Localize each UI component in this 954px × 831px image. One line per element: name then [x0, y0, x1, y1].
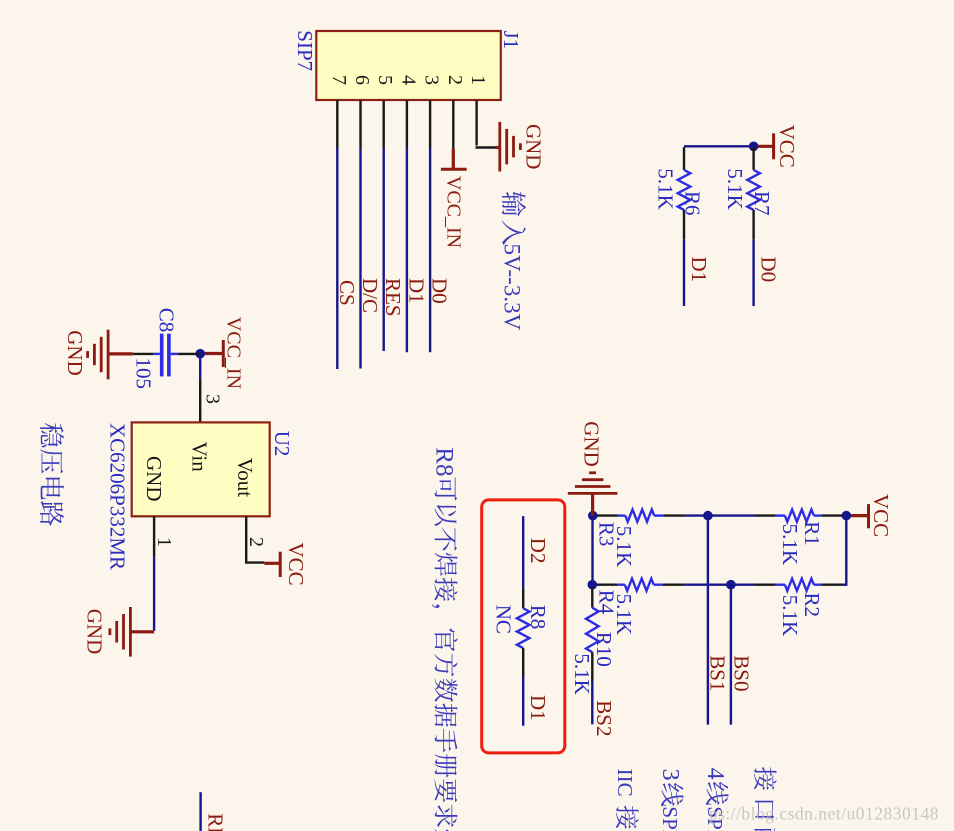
svg-text:GND: GND [522, 124, 546, 170]
capacitor C8 [178, 353, 199, 355]
svg-text:R2: R2 [800, 593, 824, 618]
pin 1 lead [153, 516, 155, 557]
ground GND (C8) [108, 352, 133, 355]
svg-text:GND: GND [83, 609, 107, 655]
pin 7 lead [336, 100, 338, 148]
svg-text:R3: R3 [595, 522, 619, 547]
wire VCC to R6 [684, 145, 754, 147]
svg-text:U2: U2 [270, 431, 294, 457]
note 接口配置 [754, 767, 777, 790]
wire pin 5 [383, 148, 385, 351]
pin 4 lead [406, 100, 408, 148]
pin 1 lead [475, 100, 477, 146]
junction dot R10 [588, 580, 598, 590]
svg-text:R7: R7 [750, 191, 774, 216]
wire to U2 pin3 [199, 354, 201, 379]
svg-text:D1: D1 [404, 278, 428, 304]
svg-text:D/C: D/C [358, 278, 382, 313]
wire R10 to BS2 [591, 681, 593, 724]
svg-text:4: 4 [702, 768, 728, 780]
svg-text:4: 4 [397, 75, 419, 85]
wire pin 6 [359, 148, 361, 369]
pin 5 lead [383, 100, 385, 148]
power VCC (network) [867, 504, 870, 528]
svg-text:VCC: VCC [284, 542, 308, 585]
pin 2 lead [245, 516, 247, 562]
svg-text:BS1: BS1 [706, 655, 730, 691]
pin 2 lead [452, 100, 454, 149]
svg-text:5.1K: 5.1K [778, 595, 802, 636]
svg-text:D2: D2 [526, 538, 550, 564]
note 稳压电路 [40, 423, 64, 447]
connector J1 [316, 31, 501, 100]
svg-text:1: 1 [153, 537, 175, 547]
junction dot BS0 [726, 580, 736, 590]
svg-text:CS: CS [335, 280, 359, 306]
resistor R3 [593, 514, 597, 516]
svg-text:R10: R10 [592, 632, 616, 667]
svg-text:NC: NC [492, 605, 516, 634]
svg-text:7: 7 [328, 75, 350, 85]
svg-text:ps://blog.csdn.net/u012830148: ps://blog.csdn.net/u012830148 [709, 804, 939, 824]
power VCC_IN (C8) [222, 340, 225, 367]
svg-text:2: 2 [444, 75, 466, 85]
svg-text:D0: D0 [757, 257, 781, 283]
resistor R6 [683, 147, 685, 170]
svg-text:J1: J1 [499, 31, 523, 50]
svg-text:5.1K: 5.1K [570, 653, 594, 694]
svg-text:VCC_IN: VCC_IN [223, 317, 245, 389]
svg-text:R6: R6 [681, 191, 705, 216]
power VCC (U2 pin2) [264, 562, 279, 565]
svg-text:D1: D1 [687, 257, 711, 283]
svg-text:3: 3 [657, 769, 683, 781]
wire pin2 up [245, 561, 264, 563]
svg-text:IIC: IIC [613, 769, 637, 797]
note 输入5V--3.3V [502, 192, 526, 217]
svg-text:SIP7: SIP7 [293, 30, 317, 71]
wire BS1 [707, 516, 709, 725]
svg-text:D1: D1 [526, 695, 550, 721]
svg-text:VCC: VCC [869, 494, 893, 537]
wire pin 3 [429, 148, 431, 352]
wire D1 [522, 677, 524, 726]
ground GND (J1 pin1) [496, 146, 501, 149]
svg-text:RES: RES [381, 278, 405, 317]
svg-text:3: 3 [421, 75, 443, 85]
svg-text:R8: R8 [431, 447, 458, 476]
svg-text:VCC_IN: VCC_IN [443, 176, 465, 248]
svg-text:RES: RES [204, 813, 228, 831]
svg-text:105: 105 [132, 358, 156, 390]
pin 3 lead [429, 100, 431, 148]
svg-text:5V--3.3V: 5V--3.3V [500, 244, 525, 331]
svg-text:5.1K: 5.1K [778, 524, 802, 565]
resistor R10 [591, 587, 593, 608]
wire top rail [845, 516, 847, 585]
svg-text:3: 3 [202, 394, 224, 404]
resistor R4 [592, 584, 596, 586]
svg-text:R1: R1 [800, 521, 824, 546]
wire GND rail [591, 516, 593, 588]
svg-text:R8: R8 [526, 605, 550, 630]
wire RES (partial) [199, 792, 201, 831]
svg-text:SPI: SPI [658, 806, 682, 831]
wire pin1 to GND [153, 557, 155, 631]
wire pin 7 [336, 148, 338, 369]
wire D2 [522, 516, 524, 588]
chain B corner [843, 584, 847, 586]
ground GND (network) [591, 494, 594, 516]
svg-text:2: 2 [245, 537, 267, 547]
resistor R2 [842, 584, 846, 586]
junction dot [749, 142, 759, 152]
pin 3 lead [199, 378, 201, 422]
svg-text:BS2: BS2 [592, 700, 616, 736]
svg-text:C8: C8 [154, 308, 178, 333]
power VCC_IN (J1 pin2) [452, 149, 455, 168]
wire BS0 [730, 585, 732, 725]
svg-text:GND: GND [142, 456, 166, 502]
resistor R8 [522, 588, 524, 608]
wire R7 to D0 [752, 240, 754, 306]
power VCC (R6R7) [754, 145, 773, 148]
annotation red box [482, 500, 565, 753]
svg-text:BS0: BS0 [730, 655, 754, 691]
junction dot BS1 [703, 511, 713, 521]
junction dot VCC [842, 511, 852, 521]
resistor R1 [842, 514, 846, 516]
svg-text:6: 6 [351, 75, 373, 85]
svg-text:D0: D0 [428, 278, 452, 304]
svg-text:XC6206P332MR: XC6206P332MR [106, 423, 130, 570]
junction dot GND [588, 511, 598, 521]
svg-text:Vout: Vout [233, 458, 257, 497]
svg-text:Vin: Vin [188, 442, 212, 473]
svg-text:5: 5 [374, 75, 396, 85]
wire pin 4 [406, 148, 408, 352]
IC U2 [132, 422, 270, 516]
svg-text:VCC: VCC [775, 125, 799, 168]
svg-text:1: 1 [467, 75, 489, 85]
svg-text:GND: GND [63, 330, 87, 376]
svg-text:5.1K: 5.1K [654, 168, 678, 209]
pin 6 lead [359, 100, 361, 148]
ground GND (U2 pin1) [130, 630, 154, 633]
svg-text:5.1K: 5.1K [723, 168, 747, 209]
junction node [195, 349, 205, 359]
wire pin1 to GND [476, 146, 497, 148]
resistor R7 [752, 147, 754, 170]
wire R6 to D1 [683, 240, 685, 306]
svg-text:GND: GND [580, 421, 604, 467]
